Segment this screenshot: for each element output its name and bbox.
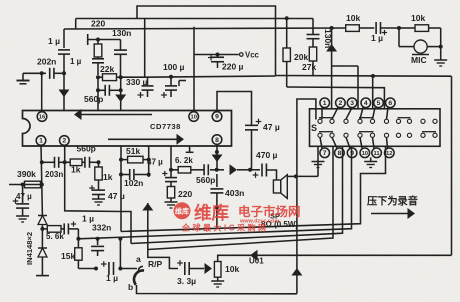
wire pin2 down (64, 145, 66, 162)
diode D2 (38, 229, 47, 257)
node (119, 158, 151, 162)
node (371, 74, 375, 78)
wire rp feed (142, 203, 178, 269)
capacitor 130n (307, 35, 320, 39)
node (63, 160, 67, 164)
node (330, 26, 334, 30)
label 8ohm (261, 220, 298, 229)
capacitor 560p (98, 85, 121, 96)
ground (16, 216, 29, 222)
IC pin 16 (37, 112, 47, 122)
label 560p (77, 144, 96, 154)
wire into IC pin14 (97, 90, 99, 110)
switch pin 10 (360, 148, 370, 158)
node (96, 75, 100, 79)
wire pin1 down (40, 145, 43, 184)
resistor 10k left (346, 25, 375, 32)
switch pin 7 (320, 148, 330, 158)
node (21, 183, 44, 187)
capacitor 47u gnd (89, 185, 105, 199)
wire 403n col ext (216, 207, 218, 228)
label 47u (108, 191, 125, 201)
resistor 1k vertical (95, 162, 102, 190)
resistor 51k (121, 156, 149, 163)
wire big box top (137, 6, 276, 76)
capacitor 220u (208, 55, 224, 69)
contact a (138, 266, 143, 271)
wire pin6 col (170, 146, 172, 171)
IC arrow right (108, 134, 184, 145)
wire (399, 28, 441, 47)
wire pin3 col ext (120, 212, 122, 232)
switch pin 3 (347, 98, 357, 108)
wire arrow record (371, 208, 415, 219)
wire (42, 72, 46, 74)
wire pin3 col (120, 146, 122, 212)
wire to a (120, 268, 137, 270)
terminal tick (179, 81, 186, 87)
wire (98, 77, 121, 90)
switch pin 11 (372, 148, 382, 158)
label 47u (263, 122, 280, 132)
wire riser (118, 237, 122, 269)
ground (92, 199, 105, 205)
wire pin16 riser (41, 73, 43, 112)
label SP (270, 212, 280, 221)
label 20k (294, 52, 308, 62)
label a (136, 254, 141, 264)
capacitor 47u left (13, 185, 29, 217)
ground (17, 73, 30, 84)
speaker SP (273, 175, 287, 199)
label 332n (92, 223, 111, 233)
node (215, 205, 219, 209)
wire arrow into IC pin13 (115, 90, 126, 110)
wire speaker-net riser (297, 99, 316, 176)
wire vcc riser (193, 27, 195, 110)
terminal bar (88, 34, 121, 45)
resistor 20k (283, 18, 290, 87)
wire pin8 down (212, 144, 223, 170)
label 203n (45, 170, 63, 179)
wire sw4 riser (357, 66, 359, 109)
capacitor 332n (91, 239, 104, 256)
label 1k (71, 165, 81, 175)
resistor 390k (25, 181, 41, 188)
capacitor 1u mic (376, 22, 399, 35)
label 560p (84, 94, 103, 104)
wire 390k row (9, 184, 42, 186)
label 1u (82, 214, 94, 224)
node (397, 26, 401, 30)
wire y77 line (145, 76, 276, 77)
wire long line y29 (64, 28, 346, 29)
node (97, 160, 101, 164)
node (96, 38, 100, 42)
label 51k (126, 146, 140, 156)
switch contacts bottom row (318, 133, 437, 137)
node (285, 16, 289, 20)
label 47u (147, 158, 163, 167)
switch pin 4 (361, 98, 371, 108)
label 130n vertical (323, 29, 333, 48)
capacitor 202n (50, 68, 64, 79)
node (96, 237, 100, 241)
wire bus D pin8 (148, 146, 333, 249)
label 10k (411, 13, 425, 23)
capacitor C 1u at x64 (58, 29, 70, 73)
IC pin 1 (36, 136, 46, 146)
wire stub (75, 19, 77, 30)
wire vcc line (194, 54, 239, 56)
capacitor 1u rp (101, 261, 114, 275)
IC pin 8 (212, 135, 222, 145)
wire b riser (291, 176, 302, 293)
label 100u (163, 62, 185, 72)
label 220 (178, 189, 192, 199)
node input junction (40, 71, 44, 75)
capacitor 560p out (191, 164, 217, 175)
terminal Vcc (240, 51, 260, 60)
node (439, 45, 443, 49)
wire 220box right drop (121, 19, 145, 78)
label 130n (112, 28, 131, 38)
capacitor 470u (250, 164, 266, 178)
label 1k (103, 172, 113, 182)
label 560p (196, 175, 215, 185)
switch box S (310, 109, 441, 147)
label 330u (126, 77, 148, 87)
label 470u (256, 150, 278, 160)
label press-to-record (367, 195, 418, 208)
resistor 15k (75, 239, 82, 269)
label 47u (16, 192, 32, 201)
watermark dzsc (174, 202, 301, 232)
ground under pin10-11 (364, 157, 377, 167)
node (169, 168, 173, 172)
wire pin4 col (148, 146, 150, 177)
node (40, 160, 44, 164)
label 6.2k (175, 156, 193, 165)
capacitor 100u (161, 77, 177, 98)
wire right edge (451, 76, 453, 255)
input terminal (23, 72, 42, 74)
wire arrow into IC (59, 73, 70, 110)
switch pin 5 (374, 98, 384, 108)
capacitor 1u d (64, 221, 78, 234)
wire (36, 257, 49, 276)
node (294, 174, 298, 178)
wire 20k bottom to sw6 (287, 87, 385, 109)
switch pin 1 (320, 98, 330, 108)
IC pin 9 (212, 112, 222, 122)
wire bus C pin9 (131, 146, 343, 243)
capacitor 130n a (114, 40, 127, 78)
node (40, 227, 44, 231)
resistor 6.2k (171, 167, 191, 173)
wire 220 line (76, 18, 313, 20)
terminal bar pin5 (186, 146, 194, 152)
node (119, 75, 123, 79)
switch bars (319, 118, 436, 132)
capacitor 330u (138, 77, 154, 98)
node (118, 267, 122, 271)
wire pin9 up (217, 92, 252, 121)
label 5.6k (46, 232, 64, 241)
ground (211, 281, 224, 287)
wire wiper arrow (198, 263, 212, 274)
node (248, 168, 252, 172)
capacitor 560p b (85, 157, 99, 168)
wire bus A pin12 (121, 146, 386, 231)
label MIC (411, 55, 427, 65)
label 403n (225, 188, 244, 198)
wire to speaker (266, 170, 276, 180)
label 1u (106, 273, 118, 283)
label 10k (346, 13, 360, 23)
potentiometer 10k (214, 262, 221, 282)
ground (434, 47, 447, 66)
wire 15k to cap (78, 268, 96, 270)
label IN4148x2 (25, 232, 34, 265)
node (216, 53, 220, 57)
resistor 1k (65, 159, 85, 166)
ground (165, 202, 178, 208)
label 1u (371, 33, 383, 43)
switch pin 12 (385, 148, 395, 158)
resistor vertical (94, 40, 102, 59)
label CD7738 (150, 122, 181, 131)
label 1u (48, 36, 60, 46)
wire bus B pin10 (78, 146, 351, 239)
switch contacts top row (318, 119, 437, 123)
label 102n (124, 178, 143, 188)
label S (311, 123, 317, 133)
label 220u (222, 62, 244, 72)
node (62, 71, 66, 75)
switch R/P arc (134, 270, 144, 284)
node (76, 237, 80, 241)
wire sw2 riser (326, 28, 337, 109)
wire U01 arrow (250, 250, 258, 261)
capacitor 403n (210, 174, 223, 207)
resistor 27k (309, 39, 316, 76)
label 390k (17, 169, 36, 179)
switch pin 2 (336, 98, 346, 108)
switch pin 8 (335, 148, 345, 158)
wire sw5 riser (372, 76, 374, 109)
label 1u (70, 57, 82, 66)
label 10k (225, 264, 239, 274)
capacitor 3.3u (177, 260, 198, 275)
resistor 22k (98, 74, 121, 81)
wire (287, 175, 296, 177)
label 15k (61, 251, 75, 261)
switch stubs bottom (320, 137, 388, 148)
switch pin 9 (347, 148, 357, 158)
wire inner box right (121, 212, 131, 244)
capacitor 203n (42, 157, 65, 168)
IC arrow left (74, 109, 152, 120)
resistor 220 (167, 187, 174, 203)
node (94, 267, 98, 271)
capacitor 102n (121, 169, 149, 180)
label 202n (37, 57, 56, 67)
switch pin 6 (386, 98, 396, 108)
wire (312, 19, 314, 35)
wire (77, 229, 79, 239)
ground under pin7 (297, 146, 325, 176)
wire jog (332, 65, 358, 67)
label 27k (302, 62, 316, 72)
label 220 (91, 19, 105, 29)
resistor 10k right (399, 25, 441, 32)
IC pin 10 (189, 112, 199, 122)
wire pot top (218, 255, 452, 261)
node (96, 88, 123, 92)
scan noise overlay (0, 0, 1, 1)
wire out row arrow (217, 164, 250, 175)
capacitor 1u (92, 59, 104, 75)
resistor 5.6k (42, 226, 64, 233)
diode D1 (38, 216, 47, 229)
label U01 (249, 257, 264, 266)
label R/P (148, 259, 163, 269)
wire 27k to y75 line (276, 75, 452, 78)
wire (41, 185, 44, 216)
label 3.3u (177, 276, 196, 286)
wire b down (137, 285, 297, 294)
label 22k (100, 64, 114, 74)
IC CD7738 body (23, 111, 232, 147)
label b (128, 282, 133, 292)
wire inner box (65, 162, 121, 211)
node (215, 150, 219, 172)
capacitor 47u (245, 119, 261, 170)
wire (440, 28, 442, 47)
capacitor 47u pin6 (162, 171, 177, 187)
switch stubs top (322, 107, 388, 119)
microphone MIC (412, 40, 429, 55)
node (169, 75, 173, 79)
IC pin 2 (60, 136, 70, 146)
node (119, 173, 151, 177)
